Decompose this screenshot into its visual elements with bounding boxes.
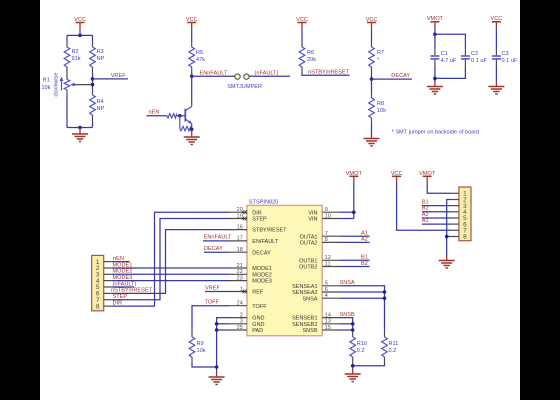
svg-text:VIN: VIN [308, 217, 317, 223]
svg-text:VIN: VIN [308, 210, 317, 216]
svg-text:R10: R10 [357, 341, 367, 347]
power VMOT (VIN) [346, 171, 363, 183]
svg-text:clockwise: clockwise [54, 73, 60, 97]
svg-text:SNSA: SNSA [340, 280, 356, 286]
wire VREF stub [93, 78, 129, 80]
svg-text:DIR: DIR [252, 210, 261, 216]
svg-text:15: 15 [325, 325, 331, 331]
svg-text:R1: R1 [43, 78, 50, 84]
svg-text:STSPIN820: STSPIN820 [249, 199, 279, 205]
wire A2 stub [422, 217, 451, 219]
svg-text:OUTB1: OUTB1 [299, 258, 317, 264]
wire DIR [112, 212, 230, 306]
wire top branch [435, 34, 466, 49]
U1 right pin names [292, 210, 318, 334]
junction R9 ground node [215, 365, 219, 369]
ground (J2) [439, 255, 455, 268]
U1 right pin numbers [325, 207, 331, 331]
wire MODE1 [112, 267, 230, 269]
connector J2 body [459, 187, 471, 241]
svg-text:12: 12 [325, 255, 331, 261]
resistor (base, part of Q1 digital transistor) [167, 114, 177, 118]
junction SENSEB2 [351, 322, 355, 326]
svg-text:4: 4 [325, 293, 328, 299]
wire VCC to C3 [495, 28, 497, 49]
svg-text:(nFAULT): (nFAULT) [113, 281, 137, 287]
wire C1 bottom [434, 66, 436, 81]
svg-text:TOFF: TOFF [252, 304, 267, 310]
wire SENSEB2 [340, 323, 352, 325]
wire nEN stub [112, 261, 130, 263]
wire R5 to node ENnFAULT [191, 73, 193, 76]
svg-text:A2: A2 [422, 212, 429, 218]
wire R4 to bottom node [92, 121, 94, 128]
svg-text:R2: R2 [72, 49, 79, 55]
resistor R10 [350, 331, 356, 363]
wire B2 stub [422, 211, 451, 213]
svg-text:47k: 47k [196, 57, 205, 63]
wire SENSEA1 / SNSA bus [340, 286, 384, 331]
wire B1 stub [422, 205, 451, 207]
wire to R2 [66, 35, 68, 41]
wire VMOT to VIN [353, 183, 355, 219]
wire OUTA2 stub [340, 241, 369, 243]
svg-text:DECAY: DECAY [391, 73, 410, 79]
J1 pin stubs [104, 262, 112, 307]
junction base node [178, 114, 182, 118]
wire emitter to ground [191, 129, 193, 132]
capacitor C3 [492, 49, 501, 65]
svg-text:* SMT jumper on backside of bo: * SMT jumper on backside of board [392, 129, 480, 135]
svg-text:nSTBY/nRESET: nSTBY/nRESET [111, 288, 153, 294]
svg-text:OUTB2: OUTB2 [299, 265, 317, 271]
capacitor C1 [430, 49, 439, 65]
wire VREF node to wiper node [92, 79, 94, 89]
svg-text:ENnFAULT: ENnFAULT [204, 235, 232, 241]
svg-text:91k: 91k [72, 56, 81, 62]
svg-text:nEN: nEN [113, 256, 124, 262]
svg-text:nEN: nEN [149, 110, 160, 116]
power VCC (R6) [296, 17, 308, 29]
svg-text:A1: A1 [361, 231, 368, 237]
svg-text:24: 24 [237, 301, 243, 307]
svg-text:SENSEB1: SENSEB1 [292, 316, 317, 322]
svg-text:R5: R5 [196, 50, 203, 56]
wire node to R8 [371, 79, 373, 92]
wire A1 stub [422, 223, 451, 225]
junction emitter node [190, 128, 194, 132]
wire OUTB1 stub [340, 259, 369, 261]
svg-text:11: 11 [325, 261, 331, 267]
resistor R11 [382, 331, 388, 363]
wire VCC to R5 [191, 29, 193, 41]
svg-text:NP: NP [97, 106, 105, 112]
svg-text:SENSEB2: SENSEB2 [292, 322, 317, 328]
wire OUTA1 stub [340, 235, 369, 237]
svg-text:R7: R7 [377, 50, 384, 56]
svg-text:2: 2 [240, 312, 243, 318]
wire VIN pin9 [340, 211, 353, 213]
J1 pin numbers [96, 259, 100, 311]
resistor R4 [90, 89, 96, 121]
junction sense ground node [351, 364, 355, 368]
wire SENSEA2 [340, 291, 384, 293]
svg-text:17: 17 [237, 236, 243, 242]
svg-text:3: 3 [240, 319, 243, 325]
wire bottom node horizontal [67, 127, 93, 129]
svg-text:MODE2: MODE2 [113, 269, 133, 275]
power VCC (J2) [391, 171, 403, 183]
connector J1 body [92, 255, 104, 310]
wire STEP [112, 219, 230, 300]
resistor (base-emitter, part of Q1) [180, 116, 192, 131]
svg-text:DIR: DIR [113, 300, 123, 306]
J2 pin stubs [451, 193, 459, 236]
svg-text:8: 8 [463, 234, 467, 241]
svg-text:0.1 uF: 0.1 uF [502, 58, 518, 64]
svg-text:8: 8 [325, 237, 328, 243]
svg-text:MODE3: MODE3 [113, 275, 133, 281]
ground (caps) [427, 81, 443, 94]
node ENnFAULT [190, 74, 194, 78]
svg-text:19: 19 [237, 213, 243, 219]
svg-text:SENSEA1: SENSEA1 [292, 284, 317, 290]
svg-text:21: 21 [237, 263, 243, 269]
wire ENnFAULT to U1 [203, 240, 230, 242]
svg-text:STEP: STEP [252, 217, 267, 223]
svg-text:SNSA: SNSA [303, 296, 318, 302]
wire top node horizontal [67, 34, 93, 36]
wire J2 GND pin2 to pin8 [447, 200, 451, 256]
wire VIN pin10 [340, 218, 353, 220]
wire J2 pin8 [447, 236, 451, 238]
resistor R5 [189, 41, 195, 73]
svg-text:C2: C2 [471, 51, 478, 57]
IC U1 STSPIN820 body [247, 199, 322, 335]
svg-text:A1: A1 [422, 218, 429, 224]
junction J2 pin8 [445, 235, 449, 239]
wire GND pin3 [217, 323, 230, 325]
transistor Q1 [185, 76, 192, 129]
J2 pin numbers [463, 191, 467, 241]
wire C3 to ground [495, 66, 497, 81]
svg-text:R4: R4 [97, 99, 104, 105]
svg-text:(nFAULT): (nFAULT) [255, 71, 279, 77]
svg-text:8: 8 [96, 303, 100, 310]
wire R8 to ground [371, 124, 373, 133]
junction SENSEA2 [383, 290, 387, 294]
junction bottom node [78, 126, 82, 130]
wire C2 bottom branch [435, 66, 466, 79]
svg-text:16: 16 [237, 224, 243, 230]
ground (R8) [364, 133, 380, 146]
svg-text:VREF: VREF [205, 285, 221, 291]
potentiometer R1 [41, 73, 92, 97]
svg-text:nSTBY/nRESET: nSTBY/nRESET [308, 70, 350, 76]
svg-text:25: 25 [237, 325, 243, 331]
wire VCC to R6 [301, 29, 303, 41]
power VMOT (J2) [419, 171, 436, 183]
svg-text:R6: R6 [307, 50, 314, 56]
resistor R6 [299, 41, 305, 73]
svg-text:MODE2: MODE2 [252, 272, 272, 278]
svg-text:R11: R11 [389, 341, 399, 347]
svg-text:23: 23 [237, 275, 243, 281]
ground (C3) [488, 81, 504, 94]
svg-text:10k: 10k [41, 85, 50, 91]
wire base [177, 115, 186, 117]
svg-text:REF: REF [252, 290, 264, 296]
svg-text:VREF: VREF [111, 73, 127, 79]
jumper JP1 pad 1 [235, 74, 240, 79]
svg-text:ENnFAULT: ENnFAULT [200, 71, 228, 77]
wire MODE2 [112, 273, 230, 275]
svg-text:R9: R9 [197, 341, 204, 347]
wire R10 to ground node [352, 363, 354, 369]
svg-text:10: 10 [325, 213, 331, 219]
wire R2 to pot [66, 73, 68, 79]
junction VIN pin9 [352, 210, 356, 214]
resistor R2 [64, 41, 70, 73]
svg-text:B2: B2 [361, 261, 368, 267]
wire C1 top [434, 34, 436, 49]
svg-text:OUTA2: OUTA2 [300, 241, 318, 247]
svg-text:SMTJUMPER: SMTJUMPER [227, 84, 262, 90]
svg-text:0.1 uF: 0.1 uF [471, 58, 487, 64]
wire DECAY stub [372, 78, 412, 80]
svg-text:R8: R8 [377, 101, 384, 107]
svg-text:9: 9 [325, 207, 328, 213]
junction PAD [215, 328, 219, 332]
wire to R3 [92, 35, 94, 41]
svg-text:0.2: 0.2 [389, 348, 397, 354]
node VREF [91, 77, 95, 81]
U1 right pin stubs [322, 212, 340, 330]
svg-text:20: 20 [237, 207, 243, 213]
svg-text:DECAY: DECAY [252, 250, 271, 256]
junction SNSB [351, 328, 355, 332]
wire VMOT to node [434, 28, 436, 34]
svg-text:NP: NP [97, 56, 105, 62]
wire nFAULT stub [112, 286, 134, 288]
svg-text:A2: A2 [361, 237, 368, 243]
power VCC (R7) [366, 17, 378, 29]
wire pot bottom [66, 96, 68, 128]
svg-text:14: 14 [325, 312, 331, 318]
wire nEN to base resistor [147, 115, 168, 117]
svg-text:10k: 10k [197, 348, 206, 354]
wire VREF to U1 [205, 291, 230, 293]
wire VMOT to J2 pin1 [427, 183, 451, 194]
svg-text:4.7 uF: 4.7 uF [441, 58, 457, 64]
wire R6 to nSTBY/nRESET [302, 73, 350, 75]
svg-text:STBY/RESET: STBY/RESET [252, 228, 287, 234]
resistor R9 [189, 331, 195, 363]
svg-text:20k: 20k [307, 57, 316, 63]
ground (divider) [72, 129, 88, 142]
wire node to jumper [192, 75, 235, 77]
svg-text:B1: B1 [422, 199, 429, 205]
svg-text:C1: C1 [441, 51, 448, 57]
svg-text:13: 13 [325, 319, 331, 325]
svg-text:EN/FAULT: EN/FAULT [252, 239, 279, 245]
U1 left pin names [252, 210, 287, 334]
wire SNSB [340, 329, 352, 331]
svg-text:18: 18 [237, 247, 243, 253]
U1 left pin numbers [237, 207, 243, 331]
svg-text:TOFF: TOFF [205, 300, 220, 306]
svg-text:DECAY: DECAY [204, 246, 223, 252]
U1 clock marks DIR STEP REF [242, 210, 247, 293]
svg-text:OUTA1: OUTA1 [300, 234, 318, 240]
wire PAD [217, 329, 230, 331]
junction cap top node [433, 33, 437, 37]
svg-text:MODE1: MODE1 [113, 262, 133, 268]
junction cap bottom node [433, 77, 437, 81]
junction SNSA [383, 296, 387, 300]
svg-text:GND: GND [252, 322, 264, 328]
wire VCC to R7 [371, 29, 373, 41]
ground (sense) [345, 369, 361, 382]
wire TOFF to U1 [192, 306, 230, 331]
power VCC (R5) [186, 17, 198, 29]
ground (logic) [209, 372, 225, 385]
svg-text:5: 5 [325, 281, 328, 287]
svg-text:6: 6 [325, 287, 328, 293]
svg-text:GND: GND [252, 316, 264, 322]
wire R9 to ground node [192, 363, 217, 367]
svg-text:MODE3: MODE3 [252, 279, 272, 285]
svg-text:SNSB: SNSB [340, 312, 356, 318]
svg-text:0.2: 0.2 [357, 348, 365, 354]
resistor R8 [369, 92, 375, 124]
wire nSTBY/nRESET [112, 230, 230, 294]
wire jumper to nFAULT [249, 75, 290, 77]
wire SENSEB1 / SNSB bus [340, 318, 352, 331]
svg-text:PAD: PAD [252, 328, 263, 334]
power VCC (divider) [74, 17, 86, 29]
wire R3 to VREF node [92, 73, 94, 79]
wire SNSA [340, 297, 384, 299]
svg-text:7: 7 [325, 231, 328, 237]
power VCC (C3) [490, 16, 502, 28]
svg-text:SENSEA2: SENSEA2 [292, 290, 317, 296]
node DECAY [370, 77, 374, 81]
U1 left pin stubs [230, 212, 248, 330]
wire R7 to DECAY node [371, 73, 373, 79]
svg-text:C3: C3 [502, 51, 509, 57]
svg-text:22: 22 [237, 269, 243, 275]
svg-text:STEP: STEP [113, 294, 128, 300]
junction wiper node [91, 83, 95, 87]
wire GND bus [217, 318, 230, 372]
wire DECAY to U1 [204, 251, 230, 253]
ground (Q1) [184, 132, 200, 145]
wire R11 bottom [353, 363, 385, 366]
svg-text:B2: B2 [422, 206, 429, 212]
resistor R7 [369, 41, 375, 73]
svg-text:10k: 10k [377, 108, 386, 114]
svg-text:1: 1 [240, 286, 243, 292]
svg-text:SNSB: SNSB [303, 328, 318, 334]
power VMOT (caps) [427, 16, 444, 28]
wire VCC to J2 pin7 [397, 183, 451, 231]
wire VCC to top node [79, 29, 81, 36]
jumper JP1 pad 2 [244, 74, 249, 79]
wire OUTB2 stub [340, 266, 369, 268]
svg-text:MODE1: MODE1 [252, 266, 272, 272]
wire stub to ground [79, 128, 81, 130]
junction top node [78, 34, 82, 38]
resistor R3 [90, 41, 96, 73]
capacitor C2 [461, 49, 470, 65]
junction GND pin3 [215, 322, 219, 326]
svg-text:B1: B1 [361, 255, 368, 261]
svg-text:R3: R3 [97, 49, 104, 55]
wire MODE3 [112, 280, 230, 282]
